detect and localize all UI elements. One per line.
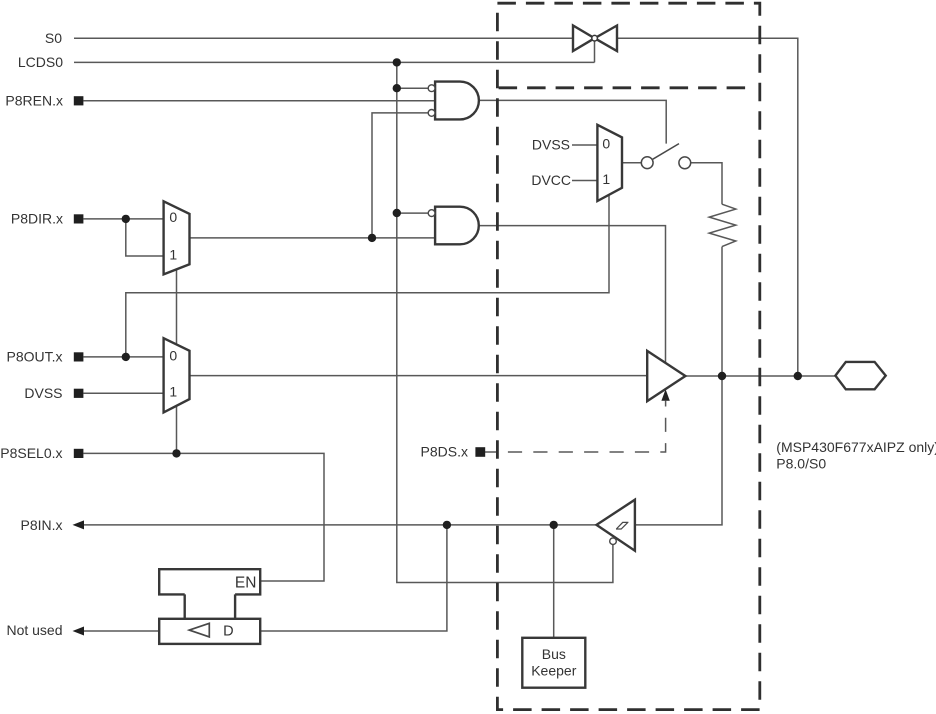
node LCDS0/enable: [393, 58, 401, 66]
svg-text:P8REN.x: P8REN.x: [5, 92, 63, 108]
wire P8OUT.x: [83, 356, 163, 358]
wire P8DS.x dashed control: [482, 451, 497, 453]
wire mux select line to P8SEL0: [176, 269, 178, 453]
terminal P8OUT.x: [74, 352, 84, 361]
svg-text:1: 1: [602, 171, 610, 187]
mux1 P8DIR select: [164, 201, 190, 274]
svg-text:P8OUT.x: P8OUT.x: [6, 349, 62, 365]
node pad line S0 branch: [794, 372, 802, 380]
wire P8SEL0.x to EN: [83, 453, 324, 581]
dashed module boundary: [497, 3, 759, 709]
terminal P8SEL0.x: [74, 449, 84, 458]
svg-text:0: 0: [169, 347, 177, 363]
svg-text:LCDS0: LCDS0: [18, 54, 63, 70]
svg-text:DVCC: DVCC: [531, 172, 571, 188]
svg-text:DVSS: DVSS: [24, 385, 62, 401]
svg-text:0: 0: [169, 209, 177, 225]
node P8IN to bus keeper: [550, 521, 558, 529]
svg-text:P8.0/S0: P8.0/S0: [776, 456, 826, 472]
node AND1 top input tee: [393, 84, 401, 92]
arrowhead P8DS into driver: [661, 389, 669, 401]
pad hexagon P8.0/S0: [835, 362, 885, 389]
latch EN box: [159, 569, 260, 619]
wire DVSS to mux2 input 1: [83, 392, 163, 394]
wire pad line to bus keeper: [553, 525, 555, 638]
terminal P8DIR.x: [74, 214, 84, 223]
svg-text:S0: S0: [45, 30, 62, 46]
wire driver output to pad: [685, 375, 835, 377]
schmitt trigger input buffer: [597, 500, 635, 551]
wire AND1 lower input from DIR line: [372, 113, 428, 238]
switch SW1 circles and lever: [641, 157, 653, 169]
wire AND1 top input: [397, 87, 429, 89]
node P8SEL0 tee: [172, 449, 180, 457]
arrow Not used output: [73, 627, 85, 636]
wire P8IN.x: [84, 524, 597, 526]
wire AND2 top input: [397, 212, 429, 214]
wire mux2 output to driver: [190, 375, 648, 377]
schmitt enable bubble: [610, 538, 617, 545]
node P8OUT input tee: [122, 353, 130, 361]
bowtie center bubble: [592, 35, 598, 41]
terminal P8REN.x: [74, 96, 84, 105]
node DIR line tee: [368, 234, 376, 242]
schmitt hysteresis symbol: [616, 522, 628, 529]
svg-text:1: 1: [169, 384, 177, 400]
wire LCDS0 net: [74, 41, 595, 62]
wire P8REN.x: [83, 100, 435, 102]
svg-text:Bus: Bus: [542, 646, 566, 662]
terminal P8DS.x: [475, 447, 485, 457]
wire P8DIR.x: [83, 218, 163, 220]
svg-text:P8IN.x: P8IN.x: [20, 517, 62, 533]
terminal squares: [74, 96, 485, 458]
wire mux3 output to switch: [622, 162, 642, 164]
svg-text:Keeper: Keeper: [531, 662, 576, 678]
bus keeper box: [522, 638, 585, 688]
mux2 P8OUT select: [164, 338, 190, 412]
AND gate U2 (lower): [435, 207, 479, 245]
svg-text:P8DS.x: P8DS.x: [421, 444, 468, 460]
wire mux1 output to AND2 input: [190, 237, 436, 239]
svg-text:(MSP430F677xAIPZ only): (MSP430F677xAIPZ only): [776, 439, 936, 455]
mux3 DVSS/DVCC pull select: [597, 125, 622, 201]
wire LCDS0 down / schmitt enable: [397, 62, 613, 582]
node P8DIR input tee: [122, 215, 130, 223]
latch D box: [159, 619, 260, 644]
wire AND2 output to driver enable: [479, 226, 666, 363]
svg-text:P8DIR.x: P8DIR.x: [11, 211, 63, 227]
AND1 input bubbles: [428, 85, 435, 92]
transmission gate (bowtie) on S0: [573, 26, 617, 52]
wire DVCC stub to mux3: [572, 180, 597, 182]
wire Not used output: [84, 630, 159, 632]
wire pad line to D latch: [260, 525, 447, 631]
wire resistor to pad line: [721, 247, 723, 376]
svg-text:D: D: [223, 624, 233, 640]
node P8IN to D latch: [443, 521, 451, 529]
output driver buffer: [647, 351, 685, 401]
wire P8DIR feedback to mux1 input 1: [126, 219, 164, 256]
node AND2 top input tee: [393, 209, 401, 217]
wire AND1 output to switch control: [479, 100, 666, 143]
node pad line resistor branch: [718, 372, 726, 380]
resistor R pullup zigzag: [709, 204, 736, 246]
terminal DVSS: [74, 389, 84, 398]
svg-text:Not used: Not used: [6, 622, 62, 638]
svg-text:P8SEL0.x: P8SEL0.x: [0, 445, 62, 461]
wire P8OUT to mux3 select: [126, 195, 609, 357]
svg-text:0: 0: [602, 135, 610, 151]
wire switch to resistor: [691, 163, 722, 204]
svg-text:DVSS: DVSS: [532, 137, 570, 153]
wire pad to schmitt input: [635, 376, 722, 525]
AND gate U1 (REN enable, top): [435, 82, 479, 120]
wire S0 net: [74, 38, 798, 376]
svg-text:1: 1: [169, 246, 177, 262]
arrow P8IN.x output: [73, 520, 85, 529]
dashed inner boundary line: [499, 86, 750, 89]
AND2 input bubble: [428, 210, 435, 217]
wire DVSS stub to mux3: [572, 144, 597, 146]
svg-text:EN: EN: [235, 574, 257, 591]
latch clock triangle: [189, 623, 209, 637]
